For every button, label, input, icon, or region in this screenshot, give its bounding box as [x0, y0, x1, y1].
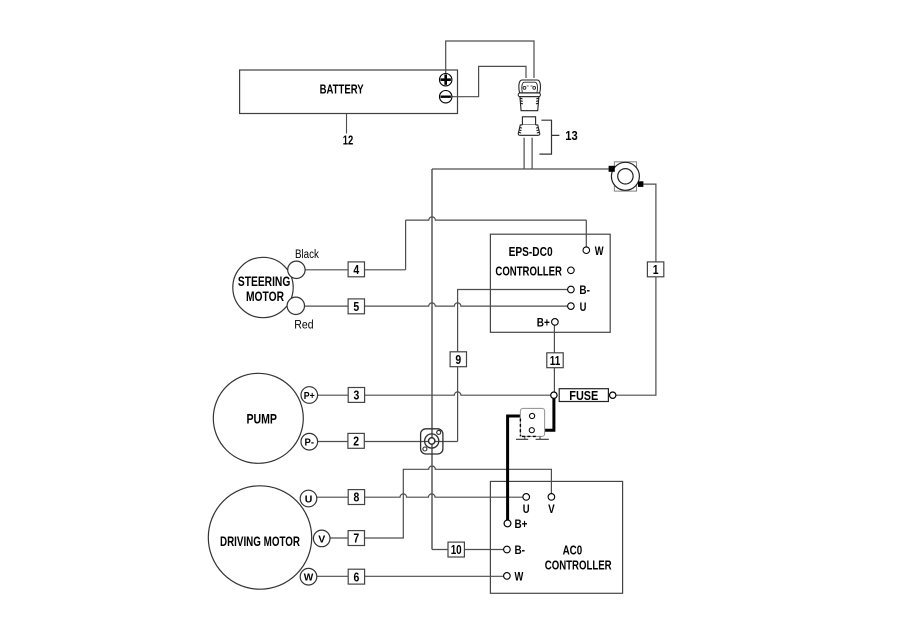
contactor	[516, 408, 549, 439]
wire battery plus to connector top	[446, 41, 534, 78]
svg-text:DRIVING MOTOR: DRIVING MOTOR	[220, 533, 300, 549]
number box 8	[348, 490, 364, 505]
AC0 terminal B+	[504, 520, 511, 527]
number box 6	[348, 569, 364, 584]
thick wire contactor upper pin to AC0 B+	[508, 416, 530, 520]
leader line for label 12	[346, 114, 348, 134]
wire horn to box1 to fuse right	[616, 184, 656, 395]
number box 5	[348, 299, 364, 314]
wire V driving motor up-over to AC0 V	[330, 466, 551, 538]
svg-text:6: 6	[354, 569, 360, 584]
svg-text:9: 9	[455, 352, 461, 367]
svg-text:12: 12	[343, 133, 354, 148]
wire B- EPS down to screw connector junction	[458, 290, 568, 442]
svg-text:5: 5	[353, 299, 359, 314]
svg-text:10: 10	[451, 542, 462, 557]
horn	[609, 162, 644, 191]
svg-text:Red: Red	[294, 319, 313, 331]
steering motor black terminal	[288, 261, 305, 278]
svg-text:PUMP: PUMP	[246, 410, 277, 426]
pump P- terminal	[301, 433, 318, 450]
svg-text:V: V	[318, 533, 325, 545]
svg-text:W: W	[595, 244, 604, 258]
svg-text:V: V	[548, 502, 555, 516]
svg-text:CONTROLLER: CONTROLLER	[545, 558, 612, 573]
svg-text:4: 4	[353, 262, 359, 277]
battery plus terminal	[440, 74, 452, 86]
svg-text:B+: B+	[537, 316, 550, 330]
pump	[213, 373, 303, 463]
number box 7	[348, 531, 364, 546]
svg-text:2: 2	[353, 434, 359, 449]
svg-text:7: 7	[353, 531, 359, 546]
AC0 controller box	[490, 481, 622, 593]
svg-text:U: U	[523, 502, 530, 516]
pump P+ terminal	[301, 387, 318, 404]
svg-text:1: 1	[653, 262, 659, 277]
svg-text:AC0: AC0	[563, 543, 583, 558]
fuse box	[551, 388, 616, 403]
wire battery minus to connector top	[452, 66, 526, 96]
number box 9	[450, 352, 466, 367]
EPS terminal B+	[552, 319, 559, 326]
driving motor W terminal	[300, 568, 317, 585]
EPS-DC0 controller box	[490, 234, 610, 332]
wire B+ EPS down to fuse	[553, 325, 555, 392]
number box 1	[647, 262, 663, 277]
svg-text:U: U	[305, 493, 313, 505]
steering motor red terminal	[287, 297, 304, 314]
EPS terminal U	[568, 303, 575, 310]
wire horizontal to horn	[432, 168, 609, 170]
svg-text:U: U	[580, 300, 587, 314]
wire connector to junction line	[524, 138, 532, 169]
svg-text:W: W	[304, 572, 314, 584]
AC0 terminal V	[548, 494, 555, 501]
wire B- AC0 branch	[432, 549, 504, 551]
bracket for label 13	[539, 120, 559, 154]
thick wire fuse to contactor lower pin	[535, 398, 554, 430]
wire U EPS to steering Red	[305, 303, 568, 306]
svg-text:P-: P-	[305, 437, 315, 449]
svg-text:B+: B+	[515, 517, 528, 531]
svg-text:3: 3	[354, 388, 360, 403]
driving motor	[208, 486, 311, 589]
svg-text:B-: B-	[515, 543, 526, 557]
driving motor U terminal	[300, 490, 317, 507]
svg-text:13: 13	[565, 128, 578, 143]
wire pump P- through screw connector to B- riser	[318, 441, 458, 443]
steering motor	[233, 257, 293, 317]
connector 13 upper plug	[518, 80, 540, 111]
wire long vertical bus	[431, 169, 433, 550]
AC0 terminal W	[504, 573, 511, 580]
svg-text:Black: Black	[295, 249, 319, 261]
number box 10	[448, 542, 464, 557]
wire W from EPS to steering Black	[305, 217, 586, 270]
svg-text:8: 8	[354, 490, 360, 505]
svg-text:EPS-DC0: EPS-DC0	[509, 244, 553, 259]
screw connector plate	[421, 429, 443, 454]
connector 13 lower socket	[518, 117, 539, 136]
AC0 terminal B-	[504, 546, 511, 553]
svg-text:B-: B-	[579, 283, 590, 297]
svg-text:STEERING: STEERING	[238, 273, 291, 289]
EPS terminal W	[583, 247, 590, 254]
battery minus terminal	[440, 91, 452, 103]
battery box 12	[240, 70, 458, 114]
driving motor V terminal	[313, 530, 330, 547]
number box 2	[348, 433, 364, 448]
wire W driving motor to AC0 W	[317, 575, 504, 577]
svg-text:W: W	[515, 570, 524, 584]
svg-text:11: 11	[550, 353, 561, 368]
wire fuse left to pump P+	[318, 392, 551, 395]
svg-text:FUSE: FUSE	[569, 388, 598, 403]
EPS terminal unlabeled	[568, 267, 575, 274]
AC0 terminal U	[523, 494, 530, 501]
number box 11	[547, 353, 563, 368]
number box 4	[348, 262, 364, 277]
svg-text:P+: P+	[304, 390, 315, 402]
svg-text:CONTROLLER: CONTROLLER	[495, 263, 562, 278]
wire U driving motor to AC0 U	[317, 494, 523, 497]
svg-text:BATTERY: BATTERY	[320, 82, 365, 96]
svg-text:MOTOR: MOTOR	[246, 288, 284, 304]
number box 3	[348, 388, 364, 403]
EPS terminal B-	[568, 286, 575, 293]
